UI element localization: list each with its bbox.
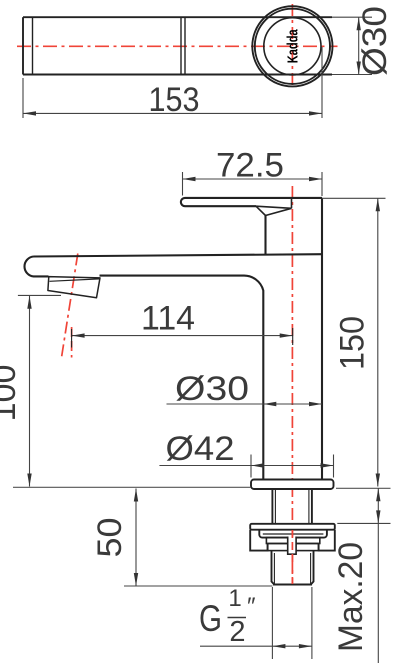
svg-text:Ø30: Ø30: [175, 370, 249, 408]
svg-text:100: 100: [0, 365, 23, 422]
svg-text:2: 2: [229, 616, 245, 648]
svg-text:1: 1: [228, 585, 241, 612]
svg-text:114: 114: [141, 300, 195, 338]
svg-text:Ø30: Ø30: [356, 6, 394, 76]
svg-text:Ø42: Ø42: [166, 430, 235, 468]
svg-text:72.5: 72.5: [216, 147, 284, 185]
svg-text:Max.20: Max.20: [332, 542, 370, 652]
svg-text:150: 150: [334, 316, 372, 370]
svg-text:″: ″: [247, 593, 256, 620]
svg-text:50: 50: [91, 518, 129, 558]
svg-text:153: 153: [149, 81, 200, 119]
svg-text:Kadda: Kadda: [285, 29, 302, 63]
svg-text:G: G: [199, 598, 222, 639]
